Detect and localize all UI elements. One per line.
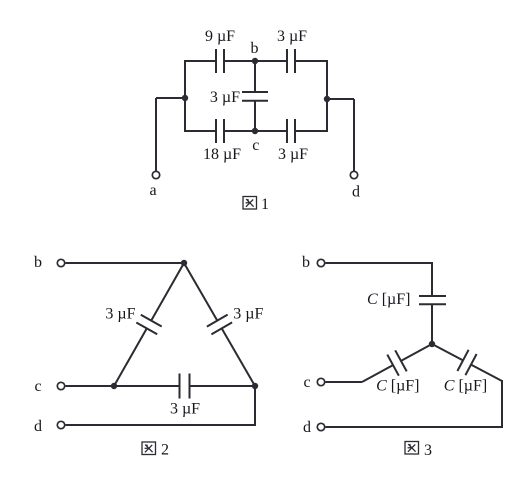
wire: b to top corner (fig3)	[326, 262, 434, 264]
wire: fig1 top-left segment	[184, 60, 215, 62]
figure 2: delta network of three 3uF capacitors	[34, 254, 264, 459]
node right junction (fig2)	[252, 383, 258, 389]
terminal d open circle (fig2)	[57, 421, 64, 428]
svg-text:3: 3	[424, 442, 432, 459]
wire: cap to center node (fig3)	[431, 304, 433, 344]
svg-text:18 µF: 18 µF	[203, 146, 241, 163]
wire: fig1 bottom-left segment	[184, 130, 215, 132]
svg-text:3 µF: 3 µF	[278, 146, 308, 163]
svg-text:d: d	[352, 184, 360, 201]
wire: d to corner (fig2)	[66, 424, 257, 426]
capacitor C5 3uF (bottom right)	[286, 119, 288, 143]
wire: b to apex	[66, 262, 185, 264]
node junction on left vertical	[182, 95, 188, 101]
svg-text:3 µF: 3 µF	[105, 306, 135, 323]
wire: c to cap (fig2)	[66, 385, 179, 387]
svg-text:3 µF: 3 µF	[277, 28, 307, 45]
terminal a open circle	[152, 171, 159, 178]
svg-text:C [µF]: C [µF]	[444, 378, 487, 395]
wire: fig1 top-right segment	[296, 60, 328, 62]
capacitor C2 3uF (top right)	[286, 49, 288, 73]
svg-text:9 µF: 9 µF	[205, 28, 235, 45]
node apex junction (fig2)	[181, 260, 187, 266]
caption Zu 1 (figure 1)	[243, 197, 257, 210]
capacitor C uF vertical (fig3)	[419, 295, 446, 297]
wire: fig1 left vertical	[184, 60, 186, 132]
svg-text:c: c	[34, 378, 41, 395]
terminal b open circle (fig3)	[317, 259, 324, 266]
node center junction (fig3)	[429, 341, 435, 347]
svg-text:d: d	[34, 418, 42, 435]
svg-text:b: b	[251, 40, 259, 57]
figure 1: capacitor bridge network, terminals a and d	[149, 28, 360, 213]
wire: cap to right node (fig2)	[191, 385, 256, 387]
svg-text:c: c	[303, 374, 310, 391]
svg-text:1: 1	[261, 196, 269, 213]
svg-text:c: c	[252, 137, 259, 154]
terminal b open circle (fig2)	[57, 259, 64, 266]
wire: fig1 middle vertical upper	[254, 61, 256, 92]
svg-text:d: d	[303, 419, 311, 436]
wire: left corner to c (fig3)	[326, 381, 363, 383]
node junction on c wire (fig2)	[111, 383, 117, 389]
terminal c open circle (fig3)	[317, 378, 324, 385]
capacitor C1 9uF (top left)	[215, 49, 217, 73]
svg-text:3 µF: 3 µF	[233, 306, 263, 323]
svg-text:b: b	[302, 254, 310, 271]
svg-text:C [µF]: C [µF]	[367, 291, 410, 308]
terminal d open circle (fig3)	[317, 423, 324, 430]
terminal c open circle (fig2)	[57, 382, 64, 389]
wire: fig1 bottom-right segment	[296, 130, 328, 132]
svg-text:C [µF]: C [µF]	[376, 378, 419, 395]
svg-text:2: 2	[161, 442, 169, 459]
capacitor 3uF left diagonal (fig2)	[151, 263, 184, 321]
capacitor C uF left diagonal (fig3)	[401, 344, 432, 361]
node junction on right vertical	[324, 96, 330, 102]
svg-text:b: b	[34, 254, 42, 271]
svg-text:3 µF: 3 µF	[210, 89, 240, 106]
wire: fig1 bottom-middle segment	[225, 130, 286, 132]
capacitor C uF right diagonal (fig3)	[432, 344, 463, 360]
wire: right corner down and to d (fig3)	[501, 380, 503, 428]
wire: fig1 middle vertical lower	[254, 101, 256, 131]
wire: stub from left node to terminal a	[156, 97, 185, 99]
node b junction	[252, 58, 258, 64]
caption Zu 3 (figure 3)	[405, 442, 419, 455]
capacitor 3uF right diagonal (fig2)	[184, 263, 217, 321]
terminal d open circle	[350, 171, 357, 178]
svg-text:3 µF: 3 µF	[170, 401, 200, 418]
svg-text:a: a	[149, 182, 156, 199]
node c junction	[252, 128, 258, 134]
figure 3: star network of three C uF capacitors	[302, 254, 503, 459]
capacitor C3 3uF (middle vertical)	[242, 91, 268, 93]
capacitor C4 18uF (bottom left)	[215, 119, 217, 143]
wire: fig1 right vertical	[326, 60, 328, 132]
wire: fig1 top-middle segment	[225, 60, 286, 62]
wire: stub from right node to terminal d	[327, 98, 354, 100]
caption Zu 2 (figure 2)	[142, 442, 156, 455]
capacitor 3uF bottom (fig2)	[179, 374, 181, 399]
